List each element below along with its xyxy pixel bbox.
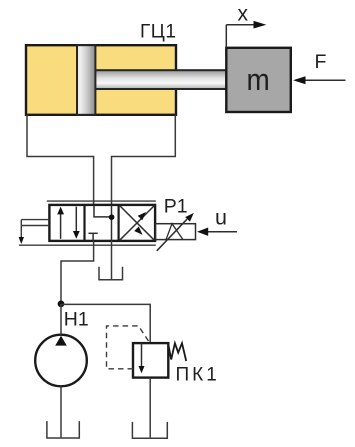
wire pump to tank [60, 386, 62, 437]
tank under relief valve [132, 422, 167, 438]
svg-text:u: u [215, 206, 227, 230]
tank under valve [99, 267, 123, 280]
svg-text:m: m [247, 63, 270, 98]
x axis arrow [226, 25, 255, 48]
pump H1 [35, 335, 87, 387]
valve left position down arrow [75, 207, 77, 231]
spring return linkage left of valve [21, 219, 49, 221]
svg-text:ПК1: ПК1 [176, 364, 220, 385]
wire cylinder left port to valve port A [27, 115, 94, 205]
valve centre position A-to-T link [94, 205, 112, 217]
valve left position up arrow [60, 210, 62, 239]
proportional solenoid of P1 [156, 224, 196, 240]
wire cylinder right port to valve port B [112, 115, 176, 205]
relief valve spring [168, 343, 186, 361]
node pump junction [58, 301, 65, 308]
wire valve port P down to pump node [61, 241, 94, 304]
cylinder ГЦ1 body [26, 45, 176, 115]
svg-text:Р1: Р1 [164, 196, 188, 218]
control input u arrow [207, 231, 238, 233]
valve right position crossed arrows [120, 206, 155, 241]
proportional adjustment arrow [157, 219, 187, 251]
piston rod [95, 70, 226, 89]
wire junction to pump [60, 304, 62, 335]
valve P1 body [49, 205, 155, 241]
relief valve pilot line (dashed) [107, 326, 149, 369]
tank under pump [47, 421, 79, 438]
piston [77, 45, 95, 115]
wire junction to relief valve [61, 304, 150, 343]
relief valve flow arrow [141, 343, 143, 368]
valve P1 lower rail [19, 244, 156, 246]
svg-text:x: x [238, 2, 249, 25]
relief valve ПК1 body [133, 343, 168, 378]
svg-text:F: F [315, 51, 327, 73]
force F arrow [304, 79, 346, 81]
valve centre position B-T through line [111, 205, 113, 241]
junction dot inside valve [109, 214, 115, 220]
wire relief valve to tank [149, 378, 151, 438]
wire valve port T to tank [111, 241, 113, 280]
valve P1 upper rail [47, 200, 156, 202]
mass m block [226, 48, 290, 112]
svg-text:Н1: Н1 [64, 308, 89, 330]
valve centre position blocked P port [89, 232, 98, 234]
svg-text:ГЦ1: ГЦ1 [140, 22, 176, 43]
